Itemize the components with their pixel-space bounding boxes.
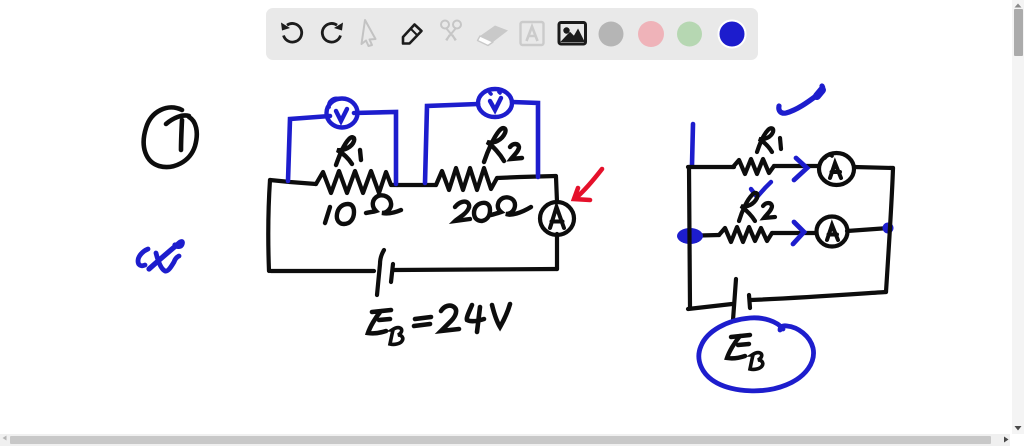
toolbar green color swatch — [677, 22, 702, 47]
toolbar text-box icon (disabled) — [521, 22, 544, 45]
left circuit: wire between R1 and R2 — [397, 183, 436, 187]
resistor R1 (right circuit) zigzag — [733, 159, 774, 174]
label R1 (right circuit) — [757, 128, 781, 152]
voltmeter V1 wire right — [354, 112, 396, 184]
left circuit: top wire right segment — [497, 176, 556, 178]
right circuit: left vertical wire — [689, 167, 690, 308]
label 20 ohm value — [455, 197, 531, 221]
right circuit: top branch wire mid — [774, 164, 818, 168]
blue blob circle around EB — [699, 318, 814, 391]
voltmeter V1 (blue) — [327, 98, 358, 127]
battery (left circuit) long plate — [377, 250, 384, 295]
voltmeter V2 wire left — [425, 104, 478, 183]
ammeter A2 (right circuit) — [817, 217, 848, 247]
blue check scribble left — [138, 242, 182, 271]
left circuit: top wire left segment — [270, 180, 316, 184]
small blue check near R2 — [751, 182, 771, 197]
left circuit: bottom wire right segment — [394, 269, 557, 270]
toolbar scissors icon (disabled) — [441, 21, 461, 41]
horizontal scrollbar — [0, 434, 1010, 446]
toolbar pencil icon — [403, 25, 422, 44]
label EB (right circuit) — [727, 335, 763, 369]
resistor R1 (10 ohm) zigzag — [316, 171, 397, 193]
voltmeter V2 wire right — [512, 102, 538, 177]
circled label 1 — [144, 107, 197, 167]
toolbar gray color swatch — [599, 22, 624, 47]
resistor R2 (20 ohm) zigzag — [436, 168, 497, 190]
right circuit: right vertical wire — [886, 168, 893, 292]
resistor R2 (right circuit) zigzag — [719, 227, 772, 242]
label R2 (right circuit) — [739, 193, 775, 221]
right circuit: bottom wire right segment — [751, 292, 886, 300]
left circuit: bottom wire left segment — [271, 269, 374, 273]
battery (right circuit) short plate — [749, 295, 750, 308]
blue junction dot right — [883, 223, 894, 234]
label 10 ohm value — [325, 195, 401, 224]
left circuit: left vertical wire — [268, 180, 270, 271]
red arrow pointing at ammeter — [574, 169, 602, 200]
right circuit: bottom wire left segment — [688, 304, 732, 309]
blue current arrow middle branch — [793, 222, 804, 244]
voltmeter V2 (blue) — [478, 89, 512, 117]
right circuit: top branch wire left — [688, 165, 734, 169]
toolbar cursor icon (disabled) — [362, 20, 376, 46]
right circuit: blue tick top-left — [692, 124, 693, 165]
toolbar undo icon — [281, 23, 302, 43]
left circuit: right vertical wire top (into ammeter) — [556, 177, 557, 202]
toolbar background — [266, 8, 758, 60]
vertical scrollbar — [1012, 0, 1024, 434]
right circuit: middle branch wire mid — [772, 231, 816, 235]
label R2 (left circuit) — [484, 128, 522, 162]
ammeter A1 (right circuit) — [819, 153, 854, 185]
blue current arrow top branch — [794, 158, 807, 180]
right circuit: middle branch wire right — [847, 228, 889, 231]
label EB = 24V — [368, 304, 510, 344]
voltmeter V1 wire left — [288, 116, 330, 181]
toolbar pink color swatch — [638, 21, 664, 47]
right circuit: top branch wire right — [854, 167, 893, 168]
battery (right circuit) long plate — [733, 279, 736, 320]
battery (left circuit) short plate — [391, 264, 393, 282]
toolbar blue color swatch (selected) — [719, 21, 746, 48]
right circuit: middle branch wire left — [680, 235, 719, 236]
label R1 (left circuit) — [336, 137, 361, 165]
toolbar image icon (active) — [559, 23, 586, 45]
ammeter A (left circuit) — [540, 202, 574, 235]
toolbar eraser icon (disabled) — [478, 26, 509, 46]
toolbar redo icon — [322, 23, 343, 43]
blue check top right — [779, 86, 823, 113]
left circuit: right vertical wire bottom — [555, 234, 559, 269]
blue junction blob left — [677, 228, 703, 244]
